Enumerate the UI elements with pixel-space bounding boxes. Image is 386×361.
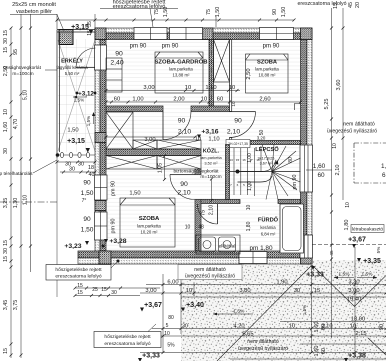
level mark +3,23: [64, 241, 89, 250]
svg-text:75: 75: [206, 9, 212, 15]
terrace note window box top: [178, 265, 242, 280]
svg-text:1,50: 1,50: [81, 227, 94, 234]
glass rail label: [173, 169, 221, 181]
bathroom door leaf and arc: [198, 204, 218, 224]
balcony slab dim lines: [74, 287, 161, 298]
svg-text:1,5%: 1,5%: [86, 116, 91, 126]
window right wall bathroom: [300, 235, 313, 258]
wardrobe box tall left: [106, 112, 133, 149]
window bottom wall bathroom: [239, 252, 267, 264]
door dim 90/2,40 balcony door: [110, 51, 123, 67]
wardrobe box A1: [133, 140, 157, 149]
svg-text:+3,33: +3,33: [306, 272, 324, 279]
svg-text:ERKÉLY: ERKÉLY: [61, 57, 83, 65]
window left wall W5: [95, 212, 108, 240]
svg-text:SZOBA-GARDRÓB: SZOBA-GARDRÓB: [154, 58, 207, 66]
svg-text:1,10: 1,10: [208, 137, 219, 143]
svg-text:3,00: 3,00: [145, 288, 156, 294]
svg-text:pm 1,80: pm 1,80: [249, 245, 273, 252]
szoba2 west wall thin: [230, 40, 232, 112]
svg-text:2,40: 2,40: [110, 60, 123, 67]
svg-text:+3,33: +3,33: [142, 353, 160, 360]
svg-text:üvegezésű nyílászáró: üvegezésű nyílászáró: [185, 274, 235, 280]
window1 dim 90/1,50: [81, 180, 94, 198]
svg-text:1,60: 1,60: [314, 322, 320, 333]
balcony bottom railing with posts: [56, 148, 95, 158]
pm 90 window labels top: [130, 44, 280, 50]
svg-text:10,20 m²: 10,20 m²: [141, 230, 159, 235]
svg-text:90: 90: [83, 216, 91, 223]
svg-text:2,10: 2,10: [209, 205, 215, 216]
svg-text:+3,67: +3,67: [348, 237, 366, 244]
svg-text:90: 90: [234, 118, 242, 125]
svg-text:5,50 m²: 5,50 m²: [65, 71, 80, 76]
svg-text:1,90: 1,90: [276, 280, 287, 286]
balcony door leaf and arc: [76, 48, 96, 68]
partition wall szoba-gardrob south right: [191, 106, 230, 112]
svg-text:10: 10: [3, 109, 9, 115]
svg-text:13,88 m²: 13,88 m²: [173, 73, 191, 78]
level mark +3,15 top: [71, 24, 93, 34]
dashed level line right: [312, 244, 386, 246]
svg-text:5,25: 5,25: [324, 99, 330, 110]
svg-text:üvegezésű nyílászáró: üvegezésű nyílászáró: [327, 129, 377, 135]
bathroom north wall left: [201, 200, 240, 204]
svg-text:10,88 m²: 10,88 m²: [259, 73, 277, 78]
svg-text:4,20: 4,20: [233, 324, 244, 330]
terrace dim horizontals: [140, 285, 386, 360]
terrace dim texts row 282: [167, 280, 359, 286]
svg-text:80: 80: [288, 157, 294, 163]
svg-text:előtétfal: előtétfal: [219, 244, 236, 250]
partition wall w4 upper stub: [195, 169, 201, 175]
svg-text:16: 16: [242, 158, 246, 162]
svg-text:90: 90: [180, 181, 188, 188]
svg-text:+3,23: +3,23: [64, 243, 81, 250]
svg-text:15: 15: [3, 256, 9, 262]
level mark +3,33 bottom: [138, 353, 160, 361]
terrace dim texts row 325: [233, 324, 356, 330]
svg-text:2,10: 2,10: [178, 129, 191, 136]
level mark +3,67 right: [348, 237, 366, 249]
gutter callout box 2: [94, 324, 161, 348]
svg-text:60: 60: [317, 172, 325, 179]
shaft box with cross: [214, 40, 230, 83]
svg-text:1,: 1,: [381, 163, 386, 170]
svg-text:90: 90: [272, 9, 278, 15]
svg-text:-1,5%: -1,5%: [232, 309, 245, 315]
svg-text:ereszcsatorna lefolyó: ereszcsatorna lefolyó: [104, 341, 150, 347]
svg-text:15: 15: [314, 288, 320, 294]
valley V right: [312, 265, 386, 307]
svg-text:pm 90: pm 90: [263, 44, 280, 50]
svg-text:pm 90: pm 90: [162, 44, 179, 50]
top wall: [95, 28, 312, 40]
window top wall W1: [134, 28, 167, 40]
svg-text:13,90: 13,90: [351, 317, 366, 323]
svg-text:+3,35: +3,35: [363, 258, 381, 265]
svg-text:20: 20: [355, 2, 361, 8]
svg-text:1,60: 1,60: [313, 163, 326, 170]
svg-text:60: 60: [217, 97, 223, 103]
svg-text:95: 95: [13, 49, 19, 55]
svg-text:15: 15: [3, 47, 9, 53]
corner pillar top-right: [301, 28, 313, 40]
svg-text:90: 90: [379, 324, 385, 330]
szoba2 west wall below door: [230, 138, 232, 145]
balcony door opening left wall: [95, 45, 107, 70]
svg-text:10: 10: [185, 225, 191, 231]
svg-text:pm 90: pm 90: [111, 181, 117, 196]
stair note box: [226, 140, 250, 148]
section line dash-dot left: [0, 201, 57, 203]
corridor dim line: [105, 136, 197, 139]
room label LEPCSO: [255, 145, 279, 166]
svg-text:80: 80: [168, 315, 174, 321]
szoba door leaf and arc: [170, 175, 195, 200]
svg-text:3,75: 3,75: [13, 300, 19, 311]
svg-text:LÉPCSŐ: LÉPCSŐ: [255, 145, 279, 153]
svg-text:p térelhatárolás: p térelhatárolás: [0, 171, 33, 177]
gardrob door leaf and arc: [163, 112, 191, 140]
left margin texts column B: [13, 49, 19, 310]
svg-text:vasbeton pillér: vasbeton pillér: [16, 9, 52, 15]
window2 dim 90/1,50: [81, 216, 94, 234]
svg-text:3,30: 3,30: [348, 280, 359, 286]
balcony tile floor ERKELY: [58, 39, 95, 152]
svg-text:5: 5: [166, 323, 169, 329]
svg-text:18: 18: [88, 165, 94, 171]
gutter callout box 1: [46, 260, 120, 281]
kozl dim line vertical: [210, 178, 213, 203]
svg-text:15: 15: [77, 290, 83, 296]
svg-text:3,00: 3,00: [143, 85, 154, 91]
svg-text:1,00: 1,00: [247, 181, 253, 191]
balcony corner pillar 25x25: [59, 30, 73, 45]
svg-text:2,15: 2,15: [355, 331, 366, 337]
svg-text:48: 48: [198, 225, 204, 231]
svg-text:+3,15: +3,15: [67, 138, 85, 145]
svg-text:4,70: 4,70: [13, 119, 19, 130]
partition wall szoba-gardrob south left: [106, 106, 163, 112]
svg-text:1,50: 1,50: [129, 191, 140, 197]
heater bracket: [295, 104, 301, 111]
svg-text:1,50: 1,50: [67, 128, 78, 134]
room label KOZL: [200, 148, 222, 166]
room label ERKELY: [56, 57, 88, 77]
shaft partition centerline: [210, 41, 212, 105]
svg-text:1,50: 1,50: [281, 7, 287, 18]
wall corner dims 35 15: [87, 21, 93, 36]
wardrobe column szoba-gardrob: [106, 58, 122, 92]
svg-text:30: 30: [3, 148, 9, 154]
svg-text:1,10: 1,10: [205, 85, 216, 91]
svg-text:1,10: 1,10: [23, 195, 29, 206]
svg-text:3,60: 3,60: [336, 80, 342, 91]
wardrobe box A2: [157, 140, 201, 149]
svg-text:75: 75: [154, 9, 160, 15]
top note pillar: [10, 2, 64, 31]
interior parquet floor: [106, 39, 301, 252]
balcony slab dim rows: [77, 283, 117, 296]
svg-text:ereszcsatorna lefolyó: ereszcsatorna lefolyó: [55, 274, 101, 280]
partition wall w5 shaft left: [209, 40, 214, 107]
svg-text:biztonsági üvegkorlát: biztonsági üvegkorlát: [173, 169, 219, 175]
top note gutter: [100, 0, 216, 27]
svg-text:15: 15: [333, 3, 339, 9]
level mark +3,16: [197, 129, 219, 139]
level mark +3,40 terrace: [181, 302, 204, 312]
wardrobe box B2: [157, 156, 201, 170]
svg-text:5,65: 5,65: [242, 332, 253, 338]
svg-text:+3,38: +3,38: [348, 353, 366, 360]
level mark +3,28: [102, 238, 127, 248]
pillar left wall lower: [95, 201, 106, 211]
left margin texts column C: [23, 90, 29, 206]
interior dim row y87: [143, 85, 235, 91]
svg-text:15: 15: [236, 158, 240, 162]
svg-text:m=100cm: m=100cm: [12, 71, 33, 77]
svg-text:1,00: 1,00: [132, 97, 143, 103]
svg-text:1,30: 1,30: [13, 198, 19, 209]
left note terelhatarolas: [0, 160, 57, 177]
note letrabeakaszto: [351, 225, 384, 233]
room label FURDO: [258, 217, 279, 237]
svg-text:10: 10: [289, 324, 295, 330]
svg-text:1,80: 1,80: [246, 221, 252, 231]
svg-text:60: 60: [321, 348, 327, 354]
top dim chain line: [133, 19, 296, 22]
svg-text:3,20: 3,20: [257, 136, 266, 141]
svg-text:2,10: 2,10: [177, 190, 190, 197]
stipple terrace area: [181, 260, 386, 361]
svg-text:10: 10: [201, 97, 207, 103]
svg-text:1,5%: 1,5%: [362, 272, 374, 278]
bed szoba2: [246, 54, 289, 93]
left window dim rows: [65, 162, 95, 179]
svg-text:75: 75: [201, 210, 207, 216]
svg-text:1,5%: 1,5%: [302, 305, 307, 315]
svg-text:+3,40: +3,40: [186, 302, 204, 309]
svg-text:45: 45: [348, 2, 354, 8]
terrace dim verticals: [163, 247, 355, 353]
stair winder treads fan: [262, 145, 301, 200]
svg-text:ereszcsatorna lefolyó: ereszcsatorna lefolyó: [297, 1, 346, 7]
svg-text:onsághüvegkorlát: onsághüvegkorlát: [3, 65, 42, 71]
svg-text:2,00: 2,00: [173, 97, 184, 103]
top dim rotated texts: [154, 7, 287, 18]
pillar bottom-right corner: [301, 251, 313, 264]
svg-text:nem átlátható: nem átlátható: [343, 122, 375, 128]
terrace tick marks: [162, 283, 386, 354]
svg-text:30: 30: [111, 290, 117, 296]
svg-text:15: 15: [3, 240, 9, 246]
svg-text:50: 50: [259, 130, 265, 136]
svg-text:pm 90: pm 90: [111, 219, 117, 234]
svg-text:1,00: 1,00: [247, 153, 253, 163]
svg-text:üvegezésű nyílászáró: üvegezésű nyílászáró: [238, 346, 288, 352]
svg-text:lam.parketta: lam.parketta: [255, 67, 279, 72]
svg-text:pm 90: pm 90: [292, 175, 298, 190]
svg-text:15: 15: [3, 30, 9, 36]
svg-text:90: 90: [178, 118, 186, 125]
svg-text:10: 10: [229, 85, 235, 91]
svg-text:2,10: 2,10: [227, 129, 240, 136]
level mark +3,33 terrace: [306, 266, 324, 279]
pillar mid top wall: [202, 28, 213, 40]
svg-text:10: 10: [195, 137, 201, 143]
right wall: [301, 40, 313, 252]
svg-text:1,60: 1,60: [314, 346, 320, 357]
svg-text:10: 10: [350, 324, 356, 330]
slope arrow -1,5pct: [213, 309, 253, 316]
door dim gardrob 90/2,10: [178, 118, 192, 136]
svg-text:35: 35: [87, 21, 93, 27]
svg-text:hőszigetelésbe rejtett: hőszigetelésbe rejtett: [104, 334, 151, 340]
svg-text:3,25: 3,25: [3, 198, 9, 209]
bed szoba-gardrob: [155, 52, 203, 93]
level mark +3,35: [357, 258, 381, 265]
top chain extension to balcony: [56, 14, 135, 29]
svg-text:lam.parketta: lam.parketta: [200, 155, 222, 160]
partition wall mid band w2: [106, 149, 201, 156]
interior dim row y87 line: [105, 89, 241, 92]
svg-text:6: 6: [382, 172, 386, 179]
svg-text:fagyálló kerámia: fagyálló kerámia: [56, 65, 88, 70]
svg-text:2H-02+17,35: 2H-02+17,35: [228, 142, 248, 146]
slope arrow balcony: [92, 112, 95, 124]
svg-text:15: 15: [3, 348, 9, 354]
svg-text:6,00: 6,00: [167, 280, 178, 286]
svg-text:nem átlátható: nem átlátható: [247, 339, 279, 345]
svg-text:10: 10: [345, 202, 351, 208]
level mark +3,15 balcony: [67, 138, 85, 145]
svg-text:3,00: 3,00: [144, 137, 155, 143]
svg-text:9x17,6/25: 9x17,6/25: [258, 157, 275, 161]
small diagonal bottom right: [368, 338, 386, 355]
svg-text:5%: 5%: [167, 343, 175, 349]
left wall: [95, 40, 106, 252]
svg-text:1,80: 1,80: [344, 220, 350, 231]
svg-text:SZOBA: SZOBA: [257, 60, 277, 66]
svg-text:KÖZL.: KÖZL.: [203, 148, 220, 155]
stair upper flight treads: [234, 147, 261, 172]
balcony left railing: [57, 30, 60, 159]
balcony diagonal cross: [58, 40, 95, 151]
stair west wall: [226, 145, 230, 200]
level mark +3,67 terrace: [140, 302, 162, 312]
svg-text:30: 30: [3, 38, 9, 44]
right margin top rotated dims: [333, 2, 361, 9]
stair mid divider line: [230, 171, 301, 173]
svg-text:30: 30: [182, 324, 188, 330]
pillar bottom-left corner: [99, 251, 111, 264]
left margin chain lines: [10, 14, 33, 358]
svg-text:2,50: 2,50: [246, 68, 252, 79]
svg-text:nem átlátható: nem átlátható: [194, 267, 226, 273]
svg-text:1,50: 1,50: [81, 190, 94, 197]
window top wall W3: [260, 28, 294, 40]
szoba2 door leaf and arc: [230, 112, 256, 138]
svg-text:FÜRDŐ: FÜRDŐ: [258, 217, 279, 224]
svg-text:3,45: 3,45: [3, 300, 9, 311]
svg-text:SZOBA: SZOBA: [139, 216, 160, 222]
svg-text:30: 30: [78, 162, 84, 168]
svg-text:+3,67: +3,67: [144, 302, 162, 309]
valley diagonal long: [217, 265, 312, 361]
balcony top railing: [57, 30, 95, 33]
svg-text:+3,28: +3,28: [109, 238, 126, 245]
corner pillar top-left: [95, 28, 106, 40]
svg-text:10: 10: [246, 205, 252, 211]
svg-text:1,5%: 1,5%: [339, 272, 351, 278]
bed szoba3: [120, 198, 175, 247]
svg-text:1,5%: 1,5%: [74, 98, 84, 103]
bathroom vanity counter: [196, 235, 240, 254]
svg-text:40: 40: [89, 172, 95, 178]
svg-text:30: 30: [69, 167, 75, 173]
svg-text:60: 60: [114, 97, 120, 103]
terrace note window box bottom: [238, 339, 288, 352]
level mark +3,12: [73, 91, 96, 103]
slope arrows 1,5pct pair: [334, 272, 377, 279]
room label SZOBA2: [255, 60, 279, 78]
stair tread numbers: [229, 158, 260, 187]
right note window: [327, 122, 377, 135]
dim extension line below balcony: [56, 158, 58, 297]
partition wall w4 lower: [195, 200, 201, 252]
svg-text:1,60: 1,60: [3, 122, 9, 133]
svg-text:10: 10: [332, 143, 338, 149]
svg-text:6,84 m²: 6,84 m²: [261, 232, 276, 237]
svg-text:3,67 m²: 3,67 m²: [260, 162, 274, 166]
svg-text:létrabeakasztó: létrabeakasztó: [352, 227, 384, 233]
szoba3 door dim 90/2,10: [177, 181, 190, 197]
svg-text:10: 10: [164, 331, 170, 337]
bathtub: [280, 204, 304, 253]
svg-text:7°: 7°: [82, 198, 87, 204]
room label SZOBA3: [137, 216, 161, 235]
svg-text:30: 30: [294, 288, 300, 294]
terrace dim 5,65 and 2,15: [242, 331, 366, 338]
svg-text:1,05: 1,05: [158, 163, 164, 173]
svg-text:25x25 cm monolit: 25x25 cm monolit: [12, 2, 56, 8]
right edge cut dims: [381, 163, 386, 179]
roof dashed rect: [354, 143, 386, 183]
svg-text:lam.parketta: lam.parketta: [169, 67, 193, 72]
wardrobe box B1: [106, 156, 157, 170]
interior chain row y98 line: [105, 101, 303, 104]
svg-text:90: 90: [115, 51, 123, 58]
svg-text:15: 15: [87, 30, 93, 36]
svg-text:19,40: 19,40: [347, 297, 362, 303]
right margin chain lines: [330, 8, 345, 338]
bathroom north wall right: [278, 200, 301, 204]
terrace dim texts row 291: [145, 288, 359, 294]
level mark +3,38 bottom: [344, 353, 366, 361]
svg-text:hőszigetelésbe rejtett: hőszigetelésbe rejtett: [55, 267, 102, 273]
window left wall W4: [95, 175, 108, 200]
svg-text:+3,12: +3,12: [78, 91, 94, 98]
stair north band: [250, 141, 301, 145]
window right wall stair: [300, 145, 313, 192]
interior chain row y98: [114, 97, 271, 103]
svg-text:lam.parketta: lam.parketta: [137, 224, 161, 229]
bottom wall: [78, 251, 312, 264]
svg-text:3,00: 3,00: [348, 288, 359, 294]
svg-text:kerámia: kerámia: [260, 225, 276, 230]
svg-text:90: 90: [83, 180, 91, 187]
